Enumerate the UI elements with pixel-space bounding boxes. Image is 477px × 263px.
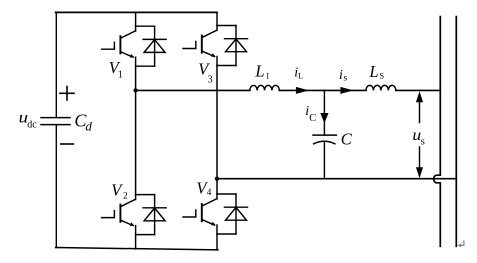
diode cathode bar <box>143 38 166 40</box>
IGBT body bar <box>201 204 203 221</box>
current arrow i_L <box>296 87 309 94</box>
wire: collector-diode top link <box>136 25 155 27</box>
svg-text:2: 2 <box>123 192 128 202</box>
paragraph return mark <box>458 241 464 247</box>
svg-text:L: L <box>298 70 303 80</box>
label i_C <box>305 104 316 124</box>
IGBT body bar <box>119 36 121 53</box>
emitter lead <box>216 57 218 66</box>
antiparallel diode D3 lead <box>235 26 237 66</box>
collector diagonal <box>202 30 217 37</box>
svg-text:C: C <box>341 130 353 149</box>
label - polarity mark <box>61 143 74 145</box>
wire: phase A node to inductor L_I <box>136 89 250 91</box>
wire: V4 emitter to bottom rail <box>216 234 218 250</box>
emitter diagonal with arrow <box>121 52 134 57</box>
gate lead <box>183 42 196 49</box>
svg-text:V: V <box>111 180 123 199</box>
grid bus right line <box>455 17 457 247</box>
label V3 <box>198 60 212 86</box>
wire: emitter-diode bottom link <box>136 234 155 236</box>
svg-text:s: s <box>344 74 348 84</box>
svg-text:C: C <box>309 113 316 124</box>
label L_S <box>368 62 384 81</box>
wire: capacitor C upper lead <box>323 90 325 135</box>
svg-text:4: 4 <box>207 187 212 197</box>
label V2 <box>111 180 128 201</box>
label V4 <box>196 178 212 197</box>
wire: V1 emitter to V2 collector (phase A leg) <box>135 66 137 194</box>
node B junction dot <box>215 177 219 181</box>
svg-text:L: L <box>254 61 264 80</box>
node A junction dot <box>134 88 138 92</box>
gate lead <box>102 42 115 49</box>
label L_I <box>254 61 269 80</box>
wire: V2 emitter to bottom rail <box>135 235 137 249</box>
inductor L_I <box>250 85 280 90</box>
wire: V1 collector lead <box>135 13 137 27</box>
transistor V3 (IGBT with antiparallel diode) <box>183 26 248 66</box>
grid bus left line with hop over phase B wire <box>434 17 441 247</box>
IGBT body bar <box>201 36 203 53</box>
wire: collector-diode top link <box>136 194 155 196</box>
collector diagonal <box>121 199 136 206</box>
current arrow i_s <box>340 87 353 94</box>
svg-text:i: i <box>339 68 343 83</box>
voltage arrow u_s upper <box>416 91 423 122</box>
antiparallel diode D1 lead <box>154 26 156 66</box>
inductor L_S <box>366 85 396 90</box>
label V1 <box>109 58 123 81</box>
voltage arrow u_s lower <box>416 147 423 178</box>
wire: V3 collector lead <box>216 12 218 25</box>
label u_s <box>412 127 424 148</box>
wire: left DC bus upper segment <box>55 13 57 118</box>
diode triangle <box>144 208 165 221</box>
label + polarity mark <box>60 87 74 101</box>
wire: capacitor C lower lead <box>323 141 325 178</box>
label i_L <box>294 65 303 80</box>
transistor V4 (IGBT with antiparallel diode) <box>183 194 248 234</box>
transistor V1 (IGBT with antiparallel diode) <box>102 26 167 66</box>
emitter diagonal with arrow <box>121 220 134 225</box>
emitter diagonal with arrow <box>202 51 215 56</box>
label i_s <box>339 68 348 84</box>
wire: V3 emitter to V4 collector (phase B leg) <box>216 66 218 195</box>
diode cathode bar <box>225 206 248 208</box>
diode triangle <box>226 39 247 52</box>
label Cd <box>74 110 92 133</box>
transistor V2 (IGBT with antiparallel diode) <box>102 195 167 235</box>
emitter lead <box>135 226 137 235</box>
wire: L_S to grid <box>396 89 441 91</box>
diode cathode bar <box>225 38 248 40</box>
wire: bottom DC rail <box>56 248 218 250</box>
antiparallel diode D4 lead <box>235 194 237 234</box>
capacitor Cd <box>41 118 70 125</box>
gate lead <box>183 210 196 217</box>
diode triangle <box>226 207 247 220</box>
svg-text:dc: dc <box>27 119 37 130</box>
capacitor C <box>313 135 336 144</box>
collector diagonal <box>202 199 217 206</box>
svg-text:L: L <box>368 62 378 81</box>
svg-text:I: I <box>266 71 269 80</box>
wire: L_I to L_S <box>279 89 366 91</box>
emitter lead <box>135 57 137 66</box>
wire: emitter-diode bottom link <box>217 233 236 235</box>
wire: emitter-diode bottom link <box>217 65 236 67</box>
diode cathode bar <box>143 207 166 209</box>
wire: top DC rail <box>56 11 217 13</box>
svg-text:S: S <box>379 71 384 81</box>
emitter diagonal with arrow <box>202 220 215 225</box>
emitter lead <box>216 225 218 234</box>
svg-text:1: 1 <box>118 70 123 81</box>
wire: emitter-diode bottom link <box>136 65 155 67</box>
gate lead <box>102 211 115 218</box>
svg-text:d: d <box>85 118 92 133</box>
label u_dc <box>19 109 38 130</box>
svg-text:s: s <box>421 137 425 148</box>
wire: collector-diode top link <box>217 25 236 27</box>
IGBT body bar <box>119 205 121 222</box>
wire: collector-diode top link <box>217 193 236 195</box>
diode triangle <box>144 40 165 53</box>
wire: left DC bus lower segment <box>55 125 57 248</box>
current arrow i_C <box>320 113 328 123</box>
collector diagonal <box>121 31 136 38</box>
svg-text:3: 3 <box>208 75 213 86</box>
antiparallel diode D2 lead <box>154 195 156 235</box>
wire: phase B node to grid <box>217 178 456 180</box>
